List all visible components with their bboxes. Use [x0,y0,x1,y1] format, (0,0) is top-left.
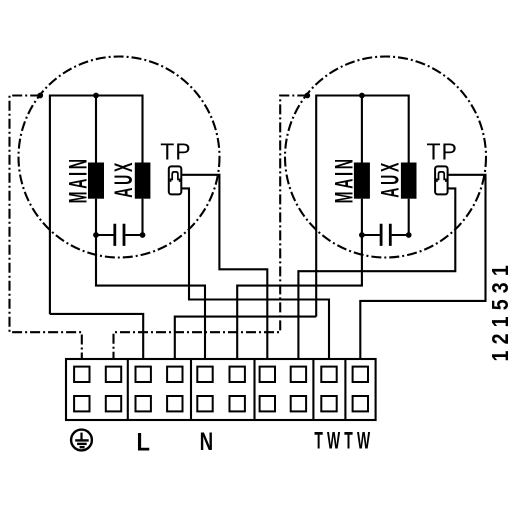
terminal block outline [66,359,376,420]
wire M1 AUX bottom [141,199,143,235]
svg-text:MAIN: MAIN [332,156,359,203]
winding MAIN M1 [88,163,104,199]
wire M1 to terminal L1 [50,314,143,359]
wire TP1 top to terminal TW1 [181,175,267,359]
motor M1 case (dash-dot circle) [19,57,220,258]
node M2 MAIN top junction dot [359,93,365,99]
capacitor C1 plates [115,224,124,246]
wire M1 MAIN bottom [95,199,97,235]
svg-text:TP: TP [160,139,191,165]
motor M2 case (dash-dot circle) [285,57,486,258]
svg-text:MAIN: MAIN [66,156,93,203]
wire M2 to terminal L2 [175,317,316,359]
wire M1 loop top [50,96,143,315]
wire M1 to terminal N1 [96,235,205,359]
wire M2 AUX bottom [408,199,410,235]
capacitor C1 leads [96,234,143,236]
wire M2 MAIN bottom [361,199,363,235]
svg-text:N: N [200,427,214,455]
svg-text:AUX: AUX [111,160,138,198]
wire TP2 top to terminal TW4 [360,175,485,359]
wire M2 loop top [316,96,409,317]
thermal contact TP2 body [435,166,448,194]
svg-text:TWTW: TWTW [314,428,374,455]
thermal contact TP1 inner contact [171,172,180,182]
svg-text:AUX: AUX [377,160,404,198]
winding AUX M2 [401,163,417,199]
node M2 cap left dot [359,232,365,238]
node M1 MAIN top junction dot [93,93,99,99]
terminal squares row top [74,367,368,382]
terminal squares row bottom [74,396,368,411]
node M1 cap right dot [140,232,146,238]
wire TP2 bottom to terminal TW2 [298,188,455,359]
capacitor C2 plates [381,224,390,246]
node PE-M1 junction dot [37,93,43,99]
terminal block dividers [128,359,346,420]
winding AUX M1 [135,163,151,199]
capacitor C2 leads [362,234,409,236]
node M2 cap right dot [406,232,412,238]
wire M1 MAIN branch top [95,96,97,163]
wire M2 MAIN branch top [361,96,363,163]
svg-text:121531: 121531 [487,259,512,361]
wire PE to M1 case (dash-dot) [10,96,82,360]
node PE-M2 junction dot [304,93,310,99]
thermal contact TP2 inner contact [437,172,446,182]
wire M2 to terminal N2 [237,235,362,359]
wire PE to M2 case (dash-dot) [114,96,308,360]
node M1 cap left dot [93,232,99,238]
svg-text:TP: TP [427,139,458,165]
thermal contact TP1 body [169,166,182,194]
wire TP1 bottom to terminal TW3 [181,188,329,359]
winding MAIN M2 [354,163,370,199]
svg-text:L: L [136,428,149,456]
protective earth symbol [71,430,92,451]
